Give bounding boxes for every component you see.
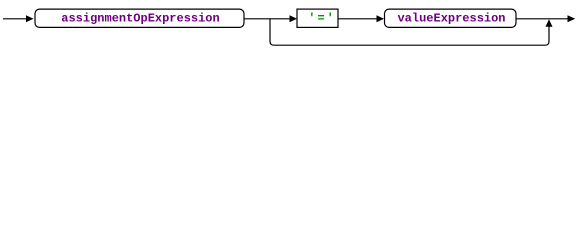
svg-text:': ' (327, 11, 334, 25)
svg-text:valueExpression: valueExpression (397, 11, 505, 25)
svg-text:assignmentOpExpression: assignmentOpExpression (61, 11, 219, 25)
svg-text:=: = (317, 11, 324, 25)
svg-text:': ' (308, 11, 315, 25)
